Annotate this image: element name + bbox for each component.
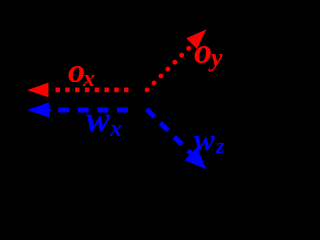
- wire: red dotted diagonal vector o_y shaft: [147, 44, 193, 90]
- svg-text:z: z: [215, 133, 225, 158]
- blue arrowhead w_z (points down-right): [184, 147, 206, 169]
- svg-text:x: x: [82, 66, 95, 92]
- svg-text:y: y: [208, 43, 223, 72]
- svg-text:x: x: [109, 116, 122, 142]
- svg-text:o: o: [194, 31, 212, 71]
- red arrowhead o_x (points left): [27, 83, 48, 98]
- wire: blue dashed diagonal vector w_z shaft: [147, 109, 193, 155]
- wire: blue dashed horizontal vector w_x shaft: [58, 108, 136, 113]
- wire: red dotted horizontal vector o_x shaft: [56, 88, 129, 93]
- blue arrowhead w_x (points left): [27, 102, 49, 117]
- red arrowhead o_y (points up-right): [186, 29, 206, 49]
- svg-text:w: w: [86, 99, 111, 139]
- svg-text:w: w: [194, 122, 215, 157]
- wire: blue shaft nub behind w_x head: [49, 109, 51, 112]
